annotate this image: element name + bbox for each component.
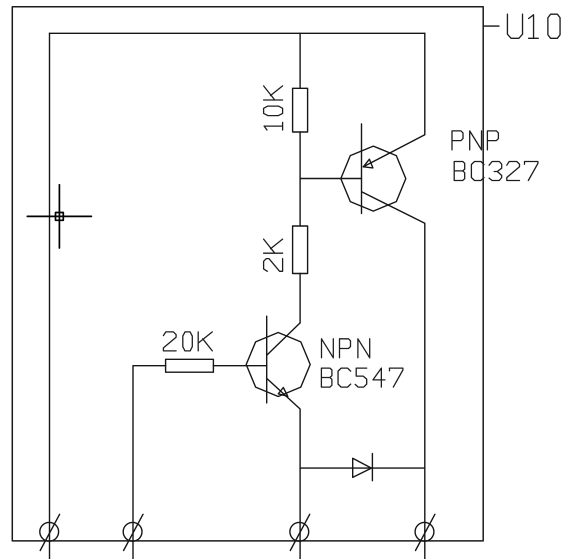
label BC547: [321, 368, 403, 387]
value label 2K (rotated): [264, 239, 283, 271]
transistor Q1 emitter arrow (points into base, PNP): [363, 159, 373, 168]
wire R2 to Q2 collector: [299, 274, 301, 323]
wire R1 to R2: [299, 132, 301, 226]
value label 20K: [163, 332, 212, 351]
terminal pin 3 slash: [290, 514, 309, 550]
transistor Q1 emitter wire from top-right corner: [363, 33, 425, 167]
wire 20K left lead and rail to terminal 2: [133, 366, 166, 559]
node base of Q1 / wire to PNP base: [300, 178, 361, 180]
label NPN: [322, 339, 370, 358]
terminal pin 4 circle: [415, 522, 434, 541]
transistor Q2 NPN BC547 base bar: [266, 316, 268, 403]
terminal pin 2 circle: [123, 522, 142, 541]
transistor Q1 circle: [341, 146, 406, 211]
U10 label lead tick: [483, 25, 499, 27]
transistor Q1 PNP BC327 base bar: [361, 124, 363, 214]
wire R3 to Q2 base: [213, 365, 266, 367]
resistor R1 10K: [293, 88, 308, 132]
transistor Q2 emitter wire: [267, 379, 300, 559]
transistor Q2 emitter arrow (points out, NPN): [278, 388, 288, 397]
cursor crosshair with pickbox: [27, 185, 91, 248]
resistor R3 20K: [166, 359, 214, 372]
transistor Q2 collector wire: [267, 323, 300, 355]
drawing border frame: [12, 7, 483, 541]
transistor Q2 circle: [246, 333, 310, 397]
label PNP: [452, 131, 498, 150]
terminal pin 4 slash: [416, 514, 435, 550]
diode D1 cathode bar: [371, 454, 373, 481]
wire left rail down to terminal 1: [49, 33, 51, 559]
terminal pin 1 circle: [40, 522, 59, 541]
diode D1 triangle: [353, 458, 372, 477]
terminal pin 3 circle: [290, 522, 309, 541]
resistor R2 2K: [293, 226, 308, 274]
wire diode branch: [300, 467, 425, 469]
label U10: [507, 14, 560, 38]
label BC327: [454, 162, 538, 181]
value label 10K (rotated): [264, 86, 283, 130]
wire top bus: [50, 32, 425, 34]
transistor Q1 collector wire: [362, 192, 425, 559]
terminal pin 2 slash: [124, 514, 143, 550]
wire from top bus to R1: [299, 33, 301, 88]
terminal pin 1 slash: [40, 514, 59, 550]
